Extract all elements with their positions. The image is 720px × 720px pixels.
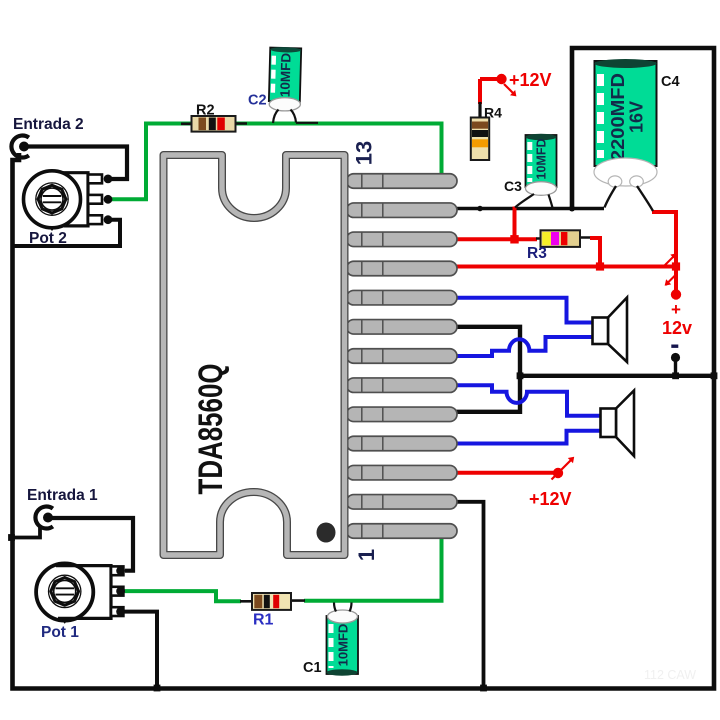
wire pin12 black net to C3-/C4- (450, 207, 604, 211)
capacitor C3 (526, 134, 557, 187)
wire red pin10 +12v bus (450, 265, 676, 269)
node +12V terminal dot top (496, 74, 506, 84)
wire entrada1 jack ground foot (13, 526, 41, 538)
connector Entrada 2 jack (11, 136, 28, 158)
wire pot1 bottom terminal to ground bus (121, 612, 157, 688)
node bus minus-stub junction (672, 372, 679, 379)
op-amp U1 TDA8560Q pins (347, 174, 458, 539)
svg-text:1: 1 (354, 549, 379, 561)
node minus terminal dot (671, 353, 680, 362)
svg-text:R2: R2 (196, 103, 215, 119)
wire speaker minus bus (520, 374, 714, 378)
wire red pin11 to R3 (450, 237, 537, 241)
node pin1 indicator dot (317, 523, 336, 543)
svg-text:R1: R1 (253, 612, 274, 629)
wire minus terminal stub (674, 357, 677, 377)
node red junction C3/R3/pin11 (510, 235, 518, 243)
node +12V terminal dot pin3 (553, 468, 563, 478)
svg-text:R4: R4 (484, 105, 502, 121)
svg-text:R3: R3 (527, 245, 547, 262)
svg-text:Pot 2: Pot 2 (29, 230, 67, 247)
svg-text:+12V: +12V (509, 70, 552, 90)
resistor R2 (181, 116, 247, 132)
wire pot2 bottom terminal to left rail (13, 220, 121, 246)
svg-text:16V: 16V (627, 101, 647, 133)
svg-text:C4: C4 (661, 74, 680, 90)
potentiometer Pot 1 (36, 563, 125, 623)
speaker SP2 (601, 391, 635, 457)
node entrada1 ground junction (8, 534, 15, 541)
wire green net1 pot1 wiper to R1 (121, 591, 241, 601)
wire red R4 top to +12V dot (480, 79, 497, 104)
wire pin2 ground drop (450, 502, 484, 688)
svg-text:C1: C1 (303, 660, 322, 676)
wire red arrow NE pin3 (552, 459, 573, 480)
svg-text:Entrada 2: Entrada 2 (13, 116, 84, 133)
wire red arrow SW at terminal (666, 274, 678, 286)
node pot1 ground junction (154, 685, 161, 692)
wire blue pin9 to speaker1 top (450, 298, 592, 323)
svg-text:TDA8560Q: TDA8560Q (192, 364, 230, 495)
resistor R1 (240, 593, 305, 610)
connector Entrada 1 jack (35, 507, 52, 529)
svg-text:+12V: +12V (529, 489, 572, 509)
potentiometer Pot 2 (24, 171, 113, 231)
resistor R4 (471, 118, 489, 161)
wire blue pin4 to speaker2 bottom (450, 431, 600, 444)
node bus right-rail junction (711, 372, 718, 379)
node bus-U junction (517, 372, 524, 379)
svg-text:+: + (671, 300, 681, 319)
capacitor C4 (595, 59, 657, 166)
wire entrada2 jack to pot2 top terminal (26, 147, 127, 180)
svg-text:Entrada 1: Entrada 1 (27, 487, 98, 504)
op-amp U1 TDA8560Q body (164, 155, 345, 555)
wire red arrow SE top (504, 84, 514, 94)
svg-text:C3: C3 (504, 178, 522, 194)
svg-text:2200MFD: 2200MFD (608, 73, 628, 161)
wire green net1 R1 to C1 to pin1 (304, 534, 442, 601)
wire black U pins 8 and 5 (450, 327, 520, 412)
wire blue pin6 to speaker2 top with hop (450, 385, 600, 416)
wire red C4+ drop to +12v terminal (652, 212, 676, 291)
svg-text:112 CAW: 112 CAW (644, 668, 696, 682)
wire entrada1 jack to pot1 top terminal (50, 518, 133, 571)
node junction C4-box left edge on pin12 wire (569, 206, 575, 212)
resistor R3 (536, 230, 590, 247)
speaker SP1 (593, 298, 628, 363)
capacitor C1 (326, 616, 358, 676)
svg-text:10MFD: 10MFD (535, 139, 549, 180)
node pin2 ground junction (480, 685, 487, 692)
wire green net2 pot2 wiper to R2/C2/pin13 (108, 124, 442, 200)
wire black R4 top lead (478, 102, 481, 120)
svg-text:C2: C2 (248, 93, 267, 109)
node +12v terminal dot (671, 289, 681, 299)
wire red pin3 +12V stub (450, 471, 555, 475)
svg-text:12v: 12v (662, 318, 692, 338)
svg-text:10MFD: 10MFD (336, 624, 351, 667)
node red junction C4 on bus (672, 262, 680, 270)
svg-text:10MFD: 10MFD (277, 52, 293, 97)
node R4 bottom junction (477, 206, 483, 212)
wire blue pin7 to speaker1 bottom with hop (450, 337, 592, 356)
node red junction R3 on bus (596, 262, 604, 270)
wire red C3+ drop (513, 207, 517, 240)
svg-text:13: 13 (352, 141, 377, 165)
capacitor C2 (269, 47, 301, 102)
svg-text:Pot 1: Pot 1 (41, 624, 79, 641)
node minus sign (671, 345, 678, 348)
wire red arrow NE at bus (664, 254, 676, 266)
wire red R3 right to bus (590, 238, 600, 267)
